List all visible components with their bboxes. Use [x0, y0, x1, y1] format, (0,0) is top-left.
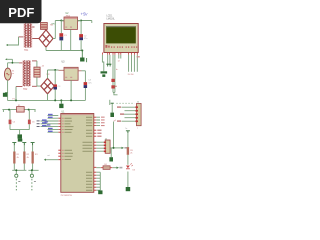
contrast divider bottom join [113, 91, 115, 93]
connector J2 [104, 140, 110, 153]
ground header branch [110, 113, 114, 117]
wire BR2 output top [48, 70, 59, 78]
terminal block row2 [34, 67, 40, 77]
node junctions rail row2 [15, 99, 17, 101]
flag J2 out [122, 147, 128, 149]
wire source bottom [7, 80, 9, 100]
crystal X1 [17, 107, 25, 113]
wire ground rail row1 [46, 47, 82, 50]
wire regulator U2 ground pin [70, 29, 72, 50]
ground LED chain [126, 187, 131, 191]
wire TR2 primary bottom green [15, 87, 17, 101]
wire LCD VEE power flag [109, 55, 112, 67]
LCD module [104, 24, 138, 53]
short tick above mcu right [109, 100, 111, 105]
MCU pin name text left inside [65, 118, 74, 160]
wire LED chain [127, 133, 129, 187]
LED D3 [126, 163, 133, 169]
node junction button1 [15, 169, 17, 171]
wire header gnd branch [111, 104, 113, 113]
ground portD [98, 190, 102, 194]
voltage regulator U3 7805 [64, 67, 78, 80]
resistor mark lower [111, 85, 114, 88]
MCU right pin group A stubs [96, 117, 100, 125]
power block top [18, 139, 23, 142]
svg-text:PIC16F877A: PIC16F877A [61, 194, 73, 197]
ground LCD [101, 71, 108, 77]
wire row2 flag [7, 59, 12, 63]
svg-text:2k: 2k [130, 153, 132, 155]
wire LCD VSS to ground [102, 55, 103, 72]
reset flag [44, 159, 46, 161]
wire BR1 output to rail [53, 21, 92, 39]
node junction button2 [31, 169, 33, 171]
ground source [3, 93, 8, 97]
wire contrast out [114, 92, 118, 94]
red tick right [115, 85, 116, 87]
power flag R1 [12, 143, 16, 146]
resistor R2 [23, 145, 25, 170]
wire TR2 secondary top red [32, 60, 37, 62]
svg-text:c: c [137, 128, 138, 130]
svg-text:BR: BR [52, 24, 55, 26]
node junction source top [12, 62, 14, 64]
wire regulator U3 output [78, 70, 81, 72]
node junction C2 [80, 20, 82, 22]
wire regulator U3 ground [70, 80, 72, 100]
ground row1 [80, 51, 84, 62]
svg-text:LCD1: LCD1 [107, 16, 114, 18]
wire regulator U2 output [78, 20, 82, 22]
net flag row1 left [6, 44, 8, 46]
wire TR1 left primary red [19, 36, 24, 38]
wire ground rail row2 [7, 99, 85, 101]
resistor mark upper [111, 79, 114, 82]
svg-text:LM016L: LM016L [107, 18, 116, 20]
wire R4 left [96, 167, 101, 169]
MCU right pin labels group B [97, 130, 101, 137]
voltage regulator U2 7805 [63, 17, 79, 29]
node junction crystal left [8, 109, 10, 111]
header net labels [117, 106, 124, 121]
wire crystal net [2, 110, 35, 112]
svg-text:TR2: TR2 [23, 89, 28, 91]
capacitor C6 [28, 110, 31, 130]
node junction C1 [60, 20, 62, 22]
left end tick labels [37, 120, 40, 127]
wire TR2 primary top red [19, 62, 22, 64]
ground below J2 [109, 148, 113, 162]
capacitor C3 [54, 70, 58, 100]
LCD pin stubs [102, 53, 137, 55]
wire to terminal row2 [36, 61, 38, 67]
resistor R1 [13, 145, 15, 170]
capacitor C5 [9, 110, 12, 130]
power flag R3 [31, 143, 35, 146]
power flag R2 [22, 143, 26, 146]
net stubs MCU left [41, 115, 59, 132]
wire header J1 nets [122, 107, 136, 121]
svg-text:+5v: +5v [81, 11, 89, 16]
transformer TR2 [22, 61, 31, 87]
capacitor C4 [84, 71, 88, 101]
MCU pin stubs right [94, 117, 97, 190]
wire caps join [10, 130, 29, 135]
node junction rail row1 [81, 50, 83, 52]
wire R4 right flag [112, 167, 122, 169]
svg-text:4k: 4k [27, 157, 29, 159]
bridge rectifier BR1 [39, 30, 53, 47]
wire MCU to J2 [96, 142, 103, 151]
transformer TR1 [24, 24, 33, 48]
svg-text:D4 D6: D4 D6 [128, 74, 135, 76]
wire button1 net [12, 170, 26, 174]
net flag row2 left [5, 58, 7, 60]
PDF badge [0, 0, 42, 23]
wire v into J2 area [113, 122, 115, 148]
resistor R5 [127, 147, 129, 155]
resistor R3 [32, 145, 34, 170]
power flag LED chain [126, 131, 130, 133]
svg-text:5v: 5v [125, 128, 127, 130]
button SW2 [30, 174, 33, 190]
dashed net to header [116, 102, 134, 104]
svg-text:PDF: PDF [8, 5, 34, 20]
wire TR2 secondary bottom red [32, 85, 37, 87]
wire TR2 primary bottom red [16, 86, 22, 88]
wire LCD VDD power flag [106, 55, 109, 67]
wire TR1 left green L [8, 37, 19, 45]
wire button2 net [28, 170, 38, 174]
wire BR2 bottom [47, 94, 49, 101]
wire regulator U2 input [61, 20, 64, 22]
MCU pin number text left inside [62, 118, 64, 160]
wire LCD RS E down + labels [113, 55, 115, 93]
ground rail row2 [59, 100, 63, 108]
wire source top [8, 63, 20, 68]
MCU right pin group A labels [101, 117, 105, 127]
wire TR1 secondary red [32, 27, 46, 39]
button SW1 [15, 174, 18, 190]
node junction C3 [54, 69, 56, 71]
blue net labels [42, 114, 53, 132]
wire J2 out [110, 147, 121, 149]
terminal block row1 [41, 23, 48, 30]
MCU pin stubs left [58, 118, 61, 160]
capacitor C2 [79, 21, 83, 51]
header J1 [135, 104, 141, 126]
resistor R4 horizontal [101, 166, 113, 170]
svg-text:vs: vs [12, 73, 14, 75]
MCU pin name text right inside [83, 117, 93, 191]
node junction crystal right [28, 109, 30, 111]
AC source V1 [4, 68, 11, 80]
node junction J2 out [113, 147, 115, 149]
svg-text:TR1: TR1 [24, 50, 29, 52]
microcontroller U1 PIC16F877A [61, 114, 94, 193]
wire LCD data pins down [119, 55, 138, 72]
tick right of ground row1 [86, 58, 88, 62]
svg-text:4k: 4k [17, 157, 19, 159]
wire terminal to bridge [37, 77, 41, 86]
bridge rectifier BR2 [41, 78, 55, 93]
wire MCU reset [46, 159, 58, 161]
ground crystal [18, 134, 23, 138]
capacitor C1 [59, 21, 63, 51]
wire MCU portD comb [96, 172, 100, 190]
